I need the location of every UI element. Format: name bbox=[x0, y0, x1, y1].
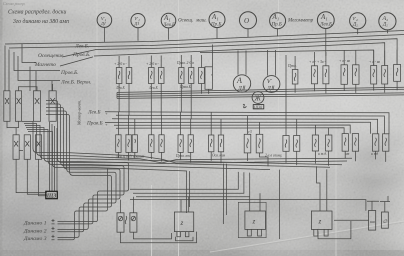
svg-text:2-х в свинц.: 2-х в свинц. bbox=[265, 154, 282, 158]
svg-text:Прав. 2-0 в: Прав. 2-0 в bbox=[176, 61, 194, 65]
svg-text:+ в - вв: + в - вв bbox=[369, 60, 380, 64]
svg-text:ѵ3: ѵ3 bbox=[248, 130, 252, 134]
svg-text:Магнето: Магнето bbox=[34, 62, 56, 68]
svg-text:Лев.Б: Лев.Б bbox=[162, 23, 175, 28]
svg-text:Освещ.: Освещ. bbox=[178, 19, 193, 24]
svg-text:Лев.Б: Лев.Б bbox=[148, 86, 158, 90]
svg-text:Пров.Б.: Пров.Б. bbox=[60, 70, 79, 76]
svg-text:Мотор-вент.: Мотор-вент. bbox=[77, 100, 82, 126]
svg-text:z: z bbox=[180, 219, 184, 227]
svg-text:Д₂: Д₂ bbox=[352, 23, 358, 28]
svg-text:Лев.Б. Верхн.: Лев.Б. Верхн. bbox=[60, 80, 91, 86]
svg-text:Прав. вт.: Прав. вт. bbox=[175, 154, 191, 158]
svg-text:Лев. и т.д. в кают: Лев. и т.д. в кают bbox=[115, 155, 145, 159]
svg-text:Схема распр.: Схема распр. bbox=[3, 1, 25, 6]
svg-text:+: + bbox=[105, 122, 108, 127]
svg-text:Щ3: Щ3 bbox=[46, 193, 57, 199]
svg-text:Пров.Б.: Пров.Б. bbox=[72, 52, 91, 58]
svg-text:шв: шв bbox=[370, 219, 375, 224]
svg-text:Лев.Б: Лев.Б bbox=[87, 110, 100, 116]
svg-text:и т.д.: и т.д. bbox=[318, 152, 327, 156]
svg-text:Д₂: Д₂ bbox=[382, 23, 388, 28]
svg-text:Лев.Б: Лев.Б bbox=[319, 23, 332, 28]
svg-text:A₁: A₁ bbox=[163, 14, 171, 22]
svg-text:+ 2-0 в -: + 2-0 в - bbox=[114, 62, 127, 66]
svg-text:A₂: A₂ bbox=[382, 16, 389, 22]
svg-text:з: з bbox=[210, 72, 213, 77]
svg-text:A₁: A₁ bbox=[211, 13, 219, 21]
svg-text:ѵ: ѵ bbox=[267, 76, 272, 85]
svg-text:ит: ит bbox=[345, 152, 350, 156]
svg-text:маш.: маш. bbox=[195, 19, 207, 24]
svg-text:Динамо 2: Динамо 2 bbox=[23, 228, 47, 234]
svg-text:A: A bbox=[236, 76, 242, 85]
svg-text:3го динамо на 380 амп: 3го динамо на 380 амп bbox=[12, 18, 69, 25]
svg-text:Освещение: Освещение bbox=[38, 53, 64, 59]
svg-text:+ 2-0 в -: + 2-0 в - bbox=[146, 62, 159, 66]
svg-text:Лев.Б: Лев.Б bbox=[115, 86, 125, 90]
svg-text:и тд: и тд bbox=[371, 152, 378, 156]
svg-text:ДⅡ: ДⅡ bbox=[266, 85, 275, 92]
svg-text:Пр.Б: Пр.Б bbox=[271, 23, 282, 28]
svg-text:Пров.: Пров. bbox=[287, 64, 297, 68]
svg-text:ѵ₂: ѵ₂ bbox=[353, 16, 358, 22]
svg-text:A₁: A₁ bbox=[272, 13, 280, 21]
svg-text:Динамо 3: Динамо 3 bbox=[23, 236, 47, 242]
svg-text:+: + bbox=[105, 111, 108, 116]
svg-text:z: z bbox=[252, 218, 256, 226]
svg-text:Лев.Б.: Лев.Б. bbox=[74, 44, 89, 50]
svg-text:+ в - вв: + в - вв bbox=[339, 59, 350, 63]
svg-text:ДⅠ: ДⅠ bbox=[100, 21, 106, 26]
svg-text:Ж: Ж bbox=[254, 95, 262, 103]
svg-text:Щ30: Щ30 bbox=[253, 104, 262, 109]
svg-text:z: z bbox=[318, 218, 322, 226]
svg-text:O: O bbox=[244, 17, 249, 25]
svg-text:ДⅡ: ДⅡ bbox=[237, 85, 246, 92]
svg-text:A₁: A₁ bbox=[320, 13, 328, 21]
svg-text:Прав.Б: Прав.Б bbox=[179, 85, 192, 89]
svg-text:Схема распредел. доски: Схема распредел. доски bbox=[8, 9, 66, 16]
svg-text:Динамо 1: Динамо 1 bbox=[23, 221, 47, 227]
svg-text:Пр.Б: Пр.Б bbox=[210, 23, 221, 28]
svg-text:Мегомметр: Мегомметр bbox=[287, 19, 314, 24]
svg-text:Осв. ком: Осв. ком bbox=[212, 154, 226, 158]
svg-text:∅: ∅ bbox=[383, 219, 388, 225]
svg-text:+ в - + 5в -: + в - + 5в - bbox=[309, 60, 326, 64]
svg-text:ДⅠ: ДⅠ bbox=[134, 21, 140, 26]
svg-text:Прав.Б: Прав.Б bbox=[86, 120, 103, 126]
